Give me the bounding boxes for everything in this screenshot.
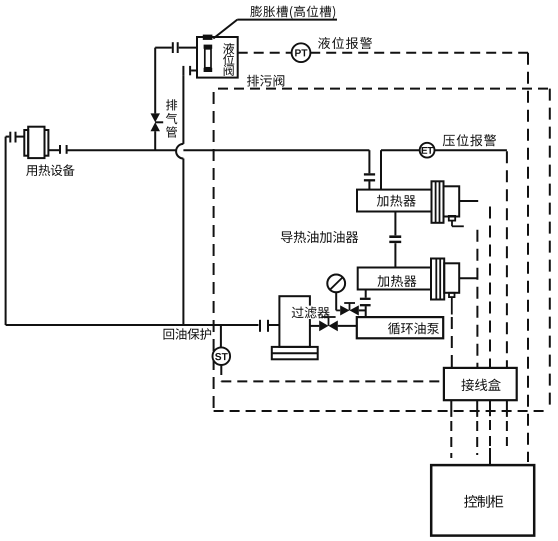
flange: tank lower-left port <box>182 66 184 75</box>
label 导热油加油器 <box>281 231 358 243</box>
label 膨胀槽(高位槽) <box>250 6 335 19</box>
label 液位报警 <box>318 37 372 49</box>
wire: vent valve to main line <box>154 131 156 150</box>
label leader 膨胀槽(高位槽) underline <box>213 20 337 39</box>
wire: heater2 outlet drop <box>365 290 367 298</box>
heater1 terminal head <box>444 186 460 216</box>
heater1 body <box>357 190 432 212</box>
wire: filter outlet <box>310 325 319 327</box>
label 用热设备 <box>26 164 74 176</box>
label 接线盒 <box>461 379 500 392</box>
pressure gauge <box>327 275 345 293</box>
flange: device inlet <box>9 132 11 143</box>
filter base <box>272 347 318 359</box>
control cabinet 控制柜 <box>431 465 534 535</box>
flange: filter inlet <box>259 320 261 332</box>
dashed signal: heater1 leads to junction box <box>476 230 478 368</box>
tank sight glass <box>204 45 213 49</box>
dashed enclosure right (排污阀 drop) <box>549 89 551 406</box>
heater2 head foot <box>449 293 455 297</box>
wire: gauge stem <box>335 292 337 310</box>
wire: heater1 feed drop <box>368 150 370 173</box>
wire: heater1 to heater2 pipe <box>394 212 396 236</box>
label 控制柜 <box>464 495 503 508</box>
wire: ET branch <box>380 150 382 189</box>
wire: gauge stem to valve <box>336 309 340 311</box>
dashed signal 排污阀 top line <box>218 88 550 90</box>
label 排污阀 <box>247 75 284 87</box>
dashed enclosure bottom <box>214 410 546 412</box>
heat user device 用热设备 <box>24 130 28 156</box>
wires: junction box bottom stubs <box>450 400 452 417</box>
wire: main supply line <box>67 149 177 151</box>
heater2 terminal head <box>444 263 459 293</box>
dashed signal: PT to control cabinet <box>310 52 528 54</box>
dashed signal: tank to PT <box>238 52 292 54</box>
label 压位报警 <box>443 134 496 146</box>
filter body <box>279 296 310 347</box>
wire: down to vent valve <box>154 48 156 114</box>
heater1 head foot <box>449 216 455 221</box>
junction box 接线盒 <box>444 368 517 400</box>
wire: gauge valve to pump pipe <box>359 309 366 311</box>
label 液位阀 (vertical) <box>223 43 234 76</box>
wire: junction box to cabinet main lead <box>489 448 491 465</box>
wire: overflow drop with hop over main line <box>182 75 184 144</box>
wire: union to heater1 <box>368 181 370 189</box>
expansion tank <box>197 37 238 78</box>
wire: device inlet riser (left loop) <box>5 137 7 325</box>
flange: device outlet <box>59 145 61 154</box>
label 循环油泵 <box>388 322 439 334</box>
pump 循环油泵 <box>357 317 443 338</box>
dashed enclosure left <box>213 92 215 411</box>
wire: ST stem <box>220 325 222 347</box>
vent valve (排气管 valve) <box>151 113 161 122</box>
heater1 flange <box>432 181 444 223</box>
label 排气管 (vertical) <box>166 99 177 137</box>
wire: union to pump <box>365 306 367 317</box>
wire: heater1 head lead <box>459 200 478 202</box>
wire: union to heater2 <box>394 243 396 267</box>
union: heater2 outlet <box>360 298 371 300</box>
label 回油保护 <box>164 328 212 340</box>
dashed signals: junction box to cabinet <box>450 421 452 458</box>
heater2 flange <box>431 259 444 300</box>
filter outlet valve <box>319 321 328 332</box>
union: between heaters <box>389 235 401 238</box>
tank filler cap <box>203 35 213 40</box>
flange: tank upper-left port <box>172 42 174 53</box>
dashed signal: heater2 to junction box <box>451 317 453 368</box>
dashed signal: ET to junction box <box>506 151 508 368</box>
wire: heater2 head lead <box>459 277 477 279</box>
wire: valve to pump <box>338 325 357 327</box>
heater2 body <box>358 268 431 290</box>
sensor ST <box>213 347 231 365</box>
union: heater1 inlet <box>364 173 375 175</box>
sensor PT <box>292 43 311 62</box>
gauge valve <box>340 305 349 315</box>
sensor ET <box>420 143 435 158</box>
wire: ET to corner <box>434 149 507 151</box>
dashed signal: ST to junction box <box>220 365 222 381</box>
label 过滤器 <box>290 306 332 319</box>
label 加热器 (heater1) <box>377 195 416 207</box>
label 加热器 (heater2) <box>378 275 417 287</box>
wire: oil return line <box>6 324 259 326</box>
